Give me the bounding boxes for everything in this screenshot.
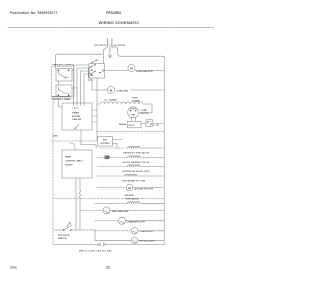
- svg-text:CONTROL: CONTROL: [100, 143, 111, 145]
- heater row 1 wires: [100, 147, 128, 149]
- svg-text:AUGER MOTOR: AUGER MOTOR: [135, 187, 154, 190]
- lamp 1 wires: [80, 209, 103, 211]
- svg-text:CHART: CHART: [65, 164, 73, 167]
- vertical bus wires to defrost timer: [73, 65, 75, 103]
- heater row 1 coil: [128, 146, 141, 148]
- svg-text:CONTROL SEE T: CONTROL SEE T: [65, 161, 83, 163]
- heater row 2 wires: [97, 157, 128, 159]
- ptc box: [146, 120, 153, 127]
- light switch assembly box: [89, 64, 105, 79]
- connector blob: [105, 156, 110, 160]
- lamp 4: [131, 237, 138, 244]
- wire assembly to evap fan: [105, 70, 129, 72]
- svg-text:RETAINER HT 20W: RETAINER HT 20W: [123, 180, 146, 183]
- svg-text:CUBE LIGHT: CUBE LIGHT: [140, 231, 154, 233]
- svg-text:LINE: LINE: [53, 136, 59, 138]
- vertical wire from assembly down: [96, 78, 98, 104]
- wire compressor to heater: [139, 112, 152, 114]
- wire bottom rail right: [106, 244, 164, 246]
- svg-text:FREEZER CONTROL: FREEZER CONTROL: [53, 65, 75, 67]
- header rule: [8, 27, 214, 29]
- wire right of timer down: [96, 104, 98, 141]
- ADC control box: [98, 137, 113, 147]
- lamp 4 wires: [95, 239, 131, 241]
- svg-text:M: M: [128, 186, 131, 190]
- defrost timer box: [62, 103, 92, 130]
- wire switch1 to bus: [72, 69, 74, 71]
- control bottom leads: [76, 178, 80, 230]
- freezer control bottom wire: [52, 96, 70, 98]
- svg-text:DEFROST TIMER: DEFROST TIMER: [53, 99, 71, 101]
- svg-text:MOLD HEATER 120 W: MOLD HEATER 120 W: [123, 161, 150, 164]
- assembly top contact: [92, 60, 97, 63]
- svg-text:60 CYCLE): 60 CYCLE): [114, 45, 125, 47]
- cabinet dash line low: [53, 198, 164, 200]
- lamp 2 wires: [95, 220, 119, 222]
- freezer control dashed box: [52, 67, 75, 99]
- compressor leads down: [131, 118, 135, 122]
- assembly bottom tick: [88, 79, 92, 81]
- heater loop line: [97, 102, 152, 113]
- wire switch2 to bus: [72, 87, 77, 89]
- compressor motor: [128, 107, 139, 118]
- wire cond fan to right rail: [131, 89, 164, 91]
- wire right rail: [163, 58, 165, 245]
- svg-text:Publication No. 5995570077: Publication No. 5995570077: [10, 11, 58, 15]
- cap stub: [153, 124, 158, 126]
- ADC stub wires: [113, 140, 123, 149]
- fill tube wires: [97, 187, 126, 189]
- freezer switch 1 box: [56, 69, 72, 82]
- freezer switch 2 box: [56, 85, 72, 97]
- svg-text:FREEZER LIGHT: FREEZER LIGHT: [128, 221, 146, 223]
- wire bottom rail left: [54, 244, 99, 246]
- svg-text:OVLD: OVLD: [129, 125, 135, 127]
- vertical coil: [79, 191, 80, 198]
- fill tube motor: [126, 184, 133, 191]
- water valve wires: [95, 202, 128, 204]
- timer terminal ticks: [74, 103, 85, 106]
- svg-text:MTR & LIGHT CKT 115 VAC: MTR & LIGHT CKT 115 VAC: [79, 249, 112, 252]
- cond fan motor: [107, 86, 114, 93]
- heater row 3 wires: [97, 166, 128, 168]
- timer left lead: [58, 98, 62, 107]
- connector in bottom rail: [101, 243, 104, 246]
- svg-text:C.L. GUARD: C.L. GUARD: [104, 99, 117, 102]
- wire top-right run: [118, 54, 164, 59]
- svg-text:(115 VOLTS: (115 VOLTS: [94, 45, 107, 47]
- timer cam switch mark: [75, 125, 79, 129]
- lamp 2: [119, 217, 126, 224]
- cabinet dash line mid right: [97, 131, 165, 133]
- evap fan motor: [128, 64, 135, 71]
- lamp 3: [131, 228, 138, 235]
- heater row 2 coil: [128, 156, 141, 158]
- svg-text:5706: 5706: [10, 266, 17, 270]
- wire ptc to rail: [153, 123, 164, 125]
- cond fan feed from assembly: [91, 78, 93, 90]
- svg-text:M: M: [110, 88, 113, 92]
- svg-text:FRS26R4: FRS26R4: [106, 11, 121, 15]
- wire top-left run: [56, 53, 104, 57]
- vertical feed to lamps: [94, 230, 96, 240]
- wire control top: [70, 143, 75, 150]
- lamp 1: [103, 207, 110, 214]
- svg-text:COND FAN: COND FAN: [117, 89, 129, 92]
- series link between switches: [58, 81, 60, 85]
- wires assembly terminals to bus: [74, 65, 90, 74]
- svg-text:MOTOR: MOTOR: [72, 116, 81, 118]
- heater row 4 coil: [125, 174, 138, 176]
- svg-text:RELAY: RELAY: [119, 123, 127, 126]
- svg-text:CAM SW: CAM SW: [72, 118, 82, 121]
- freezer switch 1: [59, 71, 69, 78]
- heater row 4 wires: [97, 175, 125, 177]
- svg-text:MOTOR: MOTOR: [141, 113, 150, 115]
- timer right terminals: [92, 110, 97, 122]
- ground arrow: [108, 55, 111, 58]
- wire evap fan to right rail: [135, 70, 164, 72]
- heater row 3 coil: [128, 165, 141, 167]
- svg-text:FRZ DOOR: FRZ DOOR: [58, 235, 70, 237]
- svg-text:WIRING SCHEMATIC: WIRING SCHEMATIC: [99, 21, 140, 25]
- lamp 3 wires: [95, 230, 131, 232]
- svg-text:TIMER: TIMER: [72, 113, 79, 115]
- svg-text:REFRIG LIGHT: REFRIG LIGHT: [140, 241, 156, 243]
- wire to cond fan: [92, 89, 108, 91]
- cabinet dash line mid: [51, 140, 96, 142]
- left cabinet boundary: [52, 98, 54, 245]
- svg-text:SWITCH: SWITCH: [58, 238, 67, 240]
- water valve coil: [128, 202, 141, 204]
- door switch wire: [54, 229, 64, 231]
- power plug 115V: [104, 39, 118, 54]
- wire left rail: [55, 56, 57, 69]
- ground prong wire: [109, 44, 111, 57]
- svg-text:1 3 4 2: 1 3 4 2: [72, 107, 79, 110]
- svg-text:REFR: REFR: [65, 157, 71, 159]
- svg-text:WTR VALVE: WTR VALVE: [126, 197, 139, 200]
- refrigerator control box: [62, 150, 92, 178]
- assembly contact dots: [91, 69, 93, 71]
- svg-text:DEFROST HTR 450 W: DEFROST HTR 450 W: [123, 152, 150, 155]
- svg-text:M: M: [130, 66, 133, 70]
- feed from top wire into assembly: [103, 54, 105, 63]
- switch contacts in assembly: [91, 65, 96, 75]
- svg-text:ADP: ADP: [103, 139, 108, 142]
- svg-text:ICE MKR: ICE MKR: [124, 195, 134, 197]
- door switch: [64, 226, 72, 231]
- overload box: [128, 121, 142, 128]
- svg-text:POST: POST: [132, 98, 139, 100]
- svg-text:22: 22: [106, 266, 110, 270]
- freezer switch 2: [59, 87, 69, 94]
- assembly left bar: [88, 68, 90, 79]
- svg-text:EXTERIOR MOLD HTR: EXTERIOR MOLD HTR: [123, 171, 150, 173]
- svg-text:COMP: COMP: [141, 110, 148, 112]
- wire overload to ptc: [141, 123, 146, 125]
- timer bottom lead: [81, 130, 97, 148]
